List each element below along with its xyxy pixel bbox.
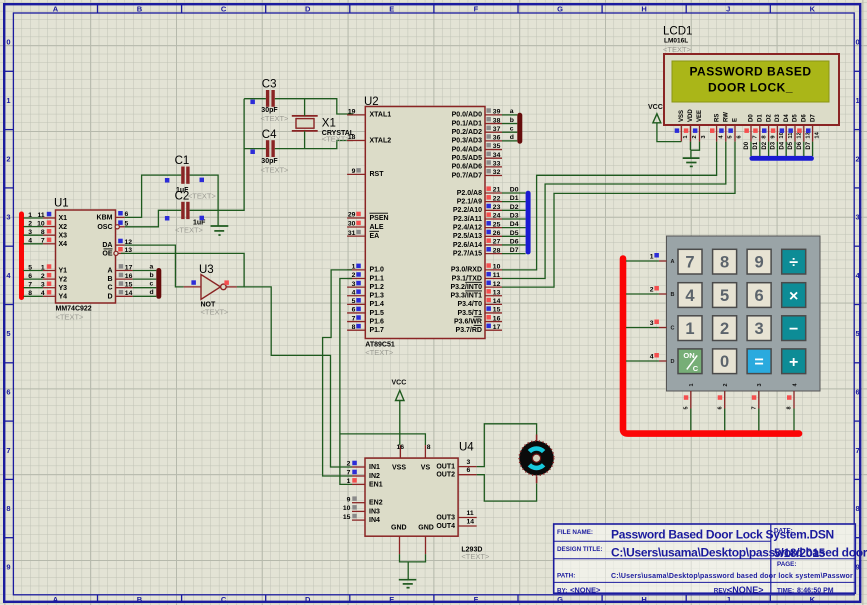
svg-text:D7: D7 <box>806 141 812 149</box>
svg-text:C3: C3 <box>262 79 277 91</box>
svg-text:4: 4 <box>352 289 356 296</box>
svg-text:Password Based Door Lock Syste: Password Based Door Lock System.DSN <box>611 528 834 542</box>
svg-text:D6: D6 <box>797 141 803 149</box>
svg-text:B: B <box>137 4 143 13</box>
wires keypad row pins A-D to red bus <box>626 261 659 361</box>
svg-text:P2.5/A13: P2.5/A13 <box>453 233 482 240</box>
svg-text:36: 36 <box>493 135 501 142</box>
svg-text:D: D <box>305 595 311 604</box>
microcontroller U2 (AT89C51) <box>347 96 502 357</box>
svg-text:A: A <box>671 259 675 265</box>
svg-text:7: 7 <box>347 470 351 477</box>
svg-text:XTAL1: XTAL1 <box>370 112 392 119</box>
svg-text:14: 14 <box>814 131 820 138</box>
svg-text:D1: D1 <box>758 114 764 122</box>
svg-text:U2: U2 <box>364 96 379 108</box>
keypad row/column terminal bus bar (red) at U1 <box>19 212 24 301</box>
svg-text:VCC: VCC <box>648 104 663 111</box>
svg-text:5: 5 <box>684 406 690 409</box>
svg-text:11: 11 <box>467 510 474 517</box>
svg-text:2: 2 <box>6 154 10 163</box>
ground symbol at LCD <box>683 158 700 166</box>
svg-text:÷: ÷ <box>789 255 798 272</box>
svg-text:Y2: Y2 <box>59 276 68 283</box>
svg-text:9: 9 <box>755 254 764 272</box>
svg-text:PATH:: PATH: <box>557 572 575 579</box>
svg-text:4: 4 <box>650 354 654 361</box>
svg-text:14: 14 <box>467 518 475 525</box>
svg-text:6: 6 <box>717 406 723 409</box>
capacitor C1 1uF <box>175 155 217 201</box>
svg-text:X4: X4 <box>59 241 68 248</box>
svg-text:P3.3/INT1: P3.3/INT1 <box>450 293 482 300</box>
svg-text:DOOR LOCK_: DOOR LOCK_ <box>708 81 793 95</box>
svg-text:<TEXT>: <TEXT> <box>663 45 692 54</box>
svg-text:C: C <box>107 285 112 292</box>
svg-text:VS: VS <box>421 465 431 472</box>
svg-text:2: 2 <box>720 320 729 338</box>
svg-text:A: A <box>53 595 59 604</box>
svg-text:9: 9 <box>347 496 351 503</box>
svg-text:E: E <box>733 118 739 122</box>
svg-text:U4: U4 <box>459 442 474 454</box>
bus bar (dark red) at U1 outputs A-D <box>156 268 161 299</box>
ground symbol at C1 <box>211 226 229 235</box>
wires crystal to C3/C4 rows <box>304 99 306 149</box>
svg-text:P2.0/A8: P2.0/A8 <box>457 190 482 197</box>
svg-text:29: 29 <box>348 212 356 219</box>
svg-text:<NONE>: <NONE> <box>727 585 764 595</box>
svg-text:P2.6/A14: P2.6/A14 <box>453 242 482 249</box>
svg-text:D2: D2 <box>766 114 772 122</box>
svg-text:MM74C922: MM74C922 <box>56 306 92 313</box>
svg-text:3: 3 <box>6 213 10 222</box>
capacitor C2 1uF <box>175 190 207 234</box>
wire U3 output to U4 IN1 <box>237 287 352 467</box>
svg-text:8: 8 <box>856 504 860 513</box>
wire U1 OE to U3 output node <box>121 253 244 287</box>
svg-text:D5: D5 <box>788 141 794 149</box>
svg-text:D5: D5 <box>793 114 799 122</box>
svg-text:9: 9 <box>856 562 860 571</box>
svg-text:8: 8 <box>6 504 10 513</box>
svg-text:b: b <box>150 272 154 279</box>
svg-text:D7: D7 <box>510 247 519 254</box>
svg-text:19: 19 <box>348 109 356 116</box>
svg-text:P1.4: P1.4 <box>370 301 385 308</box>
wire LCD RW to U2 P3.1 <box>502 142 726 279</box>
svg-text:12: 12 <box>797 132 803 138</box>
svg-text:E: E <box>389 4 394 13</box>
power symbol VCC at U4 <box>392 380 407 446</box>
svg-text:9: 9 <box>6 562 10 571</box>
svg-text:2: 2 <box>347 461 351 468</box>
svg-text:14: 14 <box>493 298 501 305</box>
svg-text:5: 5 <box>856 329 860 338</box>
keypad decoder U1 (MM74C922) <box>28 198 153 322</box>
svg-text:8: 8 <box>720 254 729 272</box>
svg-text:P2.1/A9: P2.1/A9 <box>457 199 482 206</box>
svg-text:C: C <box>693 364 699 373</box>
svg-text:a: a <box>510 108 514 115</box>
svg-text:VEE: VEE <box>697 110 703 122</box>
svg-text:D6: D6 <box>802 114 808 122</box>
svg-text:<TEXT>: <TEXT> <box>461 552 490 561</box>
svg-text:OUT4: OUT4 <box>436 523 455 530</box>
svg-text:DA: DA <box>102 242 112 249</box>
svg-text:B: B <box>107 276 112 283</box>
svg-text:D: D <box>107 293 112 300</box>
svg-text:C:\Users\usama\Desktop\passwor: C:\Users\usama\Desktop\password based do… <box>611 573 853 580</box>
svg-text:−: − <box>789 321 798 338</box>
svg-text:P3.1/TXD: P3.1/TXD <box>452 275 482 282</box>
wire U1 DA to U3 input <box>125 245 184 287</box>
svg-text:30: 30 <box>348 221 356 228</box>
svg-text:<TEXT>: <TEXT> <box>261 114 290 123</box>
svg-text:<TEXT>: <TEXT> <box>322 135 351 144</box>
svg-text:7: 7 <box>352 315 356 322</box>
svg-text:RST: RST <box>370 171 385 178</box>
svg-text:VCC: VCC <box>392 380 407 387</box>
svg-text:17: 17 <box>125 264 133 271</box>
svg-text:D0: D0 <box>510 187 519 194</box>
svg-text:IN3: IN3 <box>369 508 380 515</box>
svg-text:D1: D1 <box>510 195 519 202</box>
wire OSC pin5 to C2 and C2 to crystal column <box>125 99 244 227</box>
svg-text:5: 5 <box>352 298 356 305</box>
svg-text:RS: RS <box>714 114 720 122</box>
svg-text:P3.5/T1: P3.5/T1 <box>457 310 482 317</box>
svg-text:D3: D3 <box>775 114 781 122</box>
svg-text:1: 1 <box>6 96 10 105</box>
wire U4 OUT1 to motor top <box>477 424 537 467</box>
svg-text:D4: D4 <box>784 114 790 122</box>
svg-text:P0.4/AD4: P0.4/AD4 <box>452 146 482 153</box>
svg-text:J: J <box>726 595 730 604</box>
inverter U3 (NOT) <box>184 264 237 317</box>
svg-text:4: 4 <box>685 287 695 305</box>
svg-text:FILE NAME:: FILE NAME: <box>557 529 593 536</box>
svg-text:7: 7 <box>752 406 758 409</box>
LCD display LCD1 (LM016L) <box>663 26 839 142</box>
svg-text:2: 2 <box>352 272 356 279</box>
svg-text:P3.4/T0: P3.4/T0 <box>457 301 482 308</box>
wires from red bar to U1 X1-X4 and Y1-Y4 pins <box>23 218 43 296</box>
svg-text:D3: D3 <box>771 141 777 149</box>
svg-text:7: 7 <box>856 446 860 455</box>
svg-text:RW: RW <box>724 112 730 122</box>
svg-text:2: 2 <box>856 154 860 163</box>
wires keypad column pins to red bus <box>691 409 794 431</box>
svg-text:LCD1: LCD1 <box>663 26 692 38</box>
svg-text:37: 37 <box>493 126 501 133</box>
svg-text:15: 15 <box>125 282 133 289</box>
svg-text:7: 7 <box>6 446 10 455</box>
svg-text:Y3: Y3 <box>59 285 68 292</box>
wire LCD E to U2 P3.2 <box>502 142 735 288</box>
svg-text:P2.4/A12: P2.4/A12 <box>453 224 482 231</box>
svg-text:GND: GND <box>391 524 407 531</box>
svg-text:H: H <box>641 4 646 13</box>
svg-text:D5: D5 <box>510 230 519 237</box>
calculator keypad <box>650 236 820 410</box>
svg-text:ON: ON <box>683 351 694 360</box>
svg-text:30pF: 30pF <box>261 107 278 114</box>
svg-text:c: c <box>510 125 514 132</box>
svg-text:8:46:50 PM: 8:46:50 PM <box>797 587 834 594</box>
svg-text:BY:: BY: <box>557 587 567 594</box>
svg-text:X1: X1 <box>59 215 68 222</box>
svg-text:P0.5/AD5: P0.5/AD5 <box>452 155 482 162</box>
svg-text:EN2: EN2 <box>369 500 383 507</box>
svg-text:12: 12 <box>493 281 501 288</box>
svg-text:5: 5 <box>6 329 10 338</box>
svg-text:P0.7/AD7: P0.7/AD7 <box>452 172 482 179</box>
svg-text:a: a <box>150 263 154 270</box>
svg-text:X2: X2 <box>59 224 68 231</box>
svg-text:P1.7: P1.7 <box>370 327 385 334</box>
svg-text:1: 1 <box>685 320 694 338</box>
keypad terminal bus (thick red) <box>623 259 799 434</box>
svg-text:<TEXT>: <TEXT> <box>201 308 230 317</box>
svg-text:P1.1: P1.1 <box>370 275 385 282</box>
svg-text:F: F <box>474 595 479 604</box>
svg-text:1: 1 <box>347 478 351 485</box>
wire C4 row to XTAL2 <box>244 141 353 155</box>
svg-text:6: 6 <box>6 388 10 397</box>
svg-text:14: 14 <box>125 290 133 297</box>
svg-text:KBM: KBM <box>97 214 113 221</box>
svg-text:OSC: OSC <box>97 224 112 231</box>
svg-text:2: 2 <box>723 383 729 386</box>
svg-text:D0: D0 <box>749 114 755 122</box>
svg-text:C1: C1 <box>175 155 190 167</box>
svg-text:PSEN: PSEN <box>370 215 389 222</box>
svg-text:LM016L: LM016L <box>664 38 688 45</box>
svg-text:X1: X1 <box>322 117 336 129</box>
svg-text:C4: C4 <box>262 129 277 141</box>
svg-text:8: 8 <box>787 406 793 409</box>
svg-text:P1.3: P1.3 <box>370 293 385 300</box>
svg-text:F: F <box>474 4 479 13</box>
svg-text:21: 21 <box>493 187 501 194</box>
svg-text:A: A <box>53 4 59 13</box>
svg-text:32: 32 <box>493 169 501 176</box>
ground symbol at U4 <box>399 554 426 588</box>
svg-text:22: 22 <box>493 195 501 202</box>
svg-text:P3.6/WR: P3.6/WR <box>454 318 482 325</box>
svg-text:P1.6: P1.6 <box>370 318 385 325</box>
svg-text:D2: D2 <box>762 141 768 149</box>
svg-text:A: A <box>107 268 112 275</box>
svg-text:X3: X3 <box>59 232 68 239</box>
svg-text:26: 26 <box>493 230 501 237</box>
svg-text:7: 7 <box>685 254 694 272</box>
svg-text:=: = <box>754 354 763 371</box>
bus bar (dark red) at U2 P0.0-P0.3, nets a-d <box>502 108 522 144</box>
svg-text:5: 5 <box>720 287 729 305</box>
svg-text:30pF: 30pF <box>261 158 278 165</box>
capacitor C3 30pF <box>261 79 290 124</box>
svg-text:IN1: IN1 <box>369 464 380 471</box>
svg-text:3: 3 <box>757 383 763 386</box>
svg-text:35: 35 <box>493 143 501 150</box>
svg-text:18: 18 <box>348 134 356 141</box>
svg-text:C2: C2 <box>175 190 190 202</box>
svg-text:Y1: Y1 <box>59 268 68 275</box>
power symbol VCC at LCD <box>648 104 681 142</box>
svg-text:P0.1/AD1: P0.1/AD1 <box>452 120 482 127</box>
svg-text:G: G <box>557 4 563 13</box>
svg-text:C:\Users\usama\Desktop\passwor: C:\Users\usama\Desktop\password based do… <box>611 546 867 560</box>
svg-text:8: 8 <box>427 444 431 451</box>
bus bar (blue) at U2 P2, nets D0-D7 <box>502 187 531 255</box>
svg-text:9: 9 <box>352 168 356 175</box>
svg-text:OUT1: OUT1 <box>436 464 455 471</box>
svg-text:23: 23 <box>493 204 501 211</box>
svg-text:EN1: EN1 <box>369 481 383 488</box>
svg-text:13: 13 <box>493 289 501 296</box>
svg-text:+: + <box>789 354 798 371</box>
svg-text:P2.2/A10: P2.2/A10 <box>453 207 482 214</box>
svg-text:0: 0 <box>856 38 860 47</box>
svg-text:11: 11 <box>493 272 500 279</box>
svg-text:B: B <box>671 292 675 298</box>
wire C3 row to XTAL1 <box>244 99 353 114</box>
svg-text:38: 38 <box>493 117 501 124</box>
svg-text:15: 15 <box>343 514 351 521</box>
svg-text:P0.6/AD6: P0.6/AD6 <box>452 164 482 171</box>
svg-text:P0.3/AD3: P0.3/AD3 <box>452 138 482 145</box>
svg-text:P3.7/RD: P3.7/RD <box>456 327 482 334</box>
DC motor <box>519 435 554 484</box>
svg-text:H: H <box>641 595 646 604</box>
svg-text:16: 16 <box>493 315 501 322</box>
svg-text:OUT3: OUT3 <box>436 515 455 522</box>
svg-text:P1.2: P1.2 <box>370 284 385 291</box>
svg-text:D1: D1 <box>753 141 759 149</box>
svg-text:P3.0/RXD: P3.0/RXD <box>451 267 482 274</box>
svg-text:0: 0 <box>720 353 729 371</box>
svg-text:P1.0: P1.0 <box>370 267 385 274</box>
crystal X1 <box>292 116 355 144</box>
svg-text:P2.3/A11: P2.3/A11 <box>453 216 482 223</box>
svg-text:GND: GND <box>418 524 434 531</box>
svg-text:2: 2 <box>692 135 698 138</box>
svg-text:28: 28 <box>493 247 501 254</box>
svg-text:×: × <box>789 288 798 305</box>
svg-text:2: 2 <box>650 287 654 294</box>
svg-text:P0.0/AD0: P0.0/AD0 <box>452 112 482 119</box>
svg-text:7: 7 <box>753 135 759 138</box>
svg-text:VSS: VSS <box>392 465 406 472</box>
svg-text:P1.5: P1.5 <box>370 310 385 317</box>
svg-text:D7: D7 <box>810 114 816 122</box>
svg-text:OE: OE <box>102 250 112 257</box>
svg-text:K: K <box>810 595 816 604</box>
svg-text:C: C <box>221 595 227 604</box>
svg-text:U3: U3 <box>199 264 214 276</box>
svg-text:0: 0 <box>6 38 10 47</box>
motor driver U4 (L293D) <box>343 442 490 562</box>
svg-text:ALE: ALE <box>370 224 384 231</box>
wire U4 OUT2 to motor bottom <box>477 475 537 501</box>
svg-text:8: 8 <box>352 324 356 331</box>
svg-text:C: C <box>671 326 675 332</box>
svg-text:15: 15 <box>493 307 501 314</box>
capacitor C4 30pF <box>261 129 290 174</box>
svg-text:XTAL2: XTAL2 <box>370 137 392 144</box>
svg-text:IN2: IN2 <box>369 473 380 480</box>
svg-text:10: 10 <box>343 505 351 512</box>
svg-text:<TEXT>: <TEXT> <box>261 165 290 174</box>
svg-text:3: 3 <box>352 281 356 288</box>
bus bar (blue) under LCD data pins, nets D0-D7 <box>744 141 814 161</box>
svg-text:33: 33 <box>493 161 501 168</box>
wire LCD RS to U2 P3.0 <box>502 142 717 270</box>
wires U1 A-D outputs to bus bar, nets a,b,c,d <box>133 271 157 297</box>
svg-text:PASSWORD BASED: PASSWORD BASED <box>689 65 811 79</box>
svg-text:TIME:: TIME: <box>777 587 794 594</box>
svg-text:3: 3 <box>467 459 471 466</box>
svg-text:1: 1 <box>689 383 695 386</box>
svg-text:6: 6 <box>467 467 471 474</box>
svg-text:D3: D3 <box>510 213 519 220</box>
svg-text:16: 16 <box>125 273 133 280</box>
svg-text:EA: EA <box>370 233 380 240</box>
svg-text:d: d <box>510 134 514 141</box>
svg-text:10: 10 <box>493 264 501 271</box>
svg-text:<NONE>: <NONE> <box>570 585 601 594</box>
wire U2 P1.1 to U4 EN1 and VS branch <box>340 279 426 485</box>
svg-text:1: 1 <box>650 254 654 261</box>
svg-text:3: 3 <box>755 320 764 338</box>
svg-text:39: 39 <box>493 109 501 116</box>
svg-text:B: B <box>137 595 143 604</box>
title block <box>554 524 867 595</box>
svg-text:6: 6 <box>352 307 356 314</box>
svg-text:1: 1 <box>352 264 356 271</box>
svg-text:D4: D4 <box>779 141 785 149</box>
svg-text:<TEXT>: <TEXT> <box>188 192 217 201</box>
svg-text:D: D <box>305 4 311 13</box>
svg-text:<TEXT>: <TEXT> <box>56 313 85 322</box>
svg-text:OUT2: OUT2 <box>436 472 455 479</box>
svg-text:17: 17 <box>493 324 501 331</box>
svg-text:VSS: VSS <box>679 110 685 122</box>
svg-text:34: 34 <box>493 152 501 159</box>
svg-text:31: 31 <box>348 230 356 237</box>
svg-text:D2: D2 <box>510 204 519 211</box>
svg-text:E: E <box>389 595 394 604</box>
svg-text:3: 3 <box>856 213 860 222</box>
svg-text:PAGE:: PAGE: <box>777 561 796 568</box>
svg-text:3: 3 <box>650 320 654 327</box>
svg-text:C: C <box>221 4 227 13</box>
svg-text:c: c <box>150 281 154 288</box>
svg-text:K: K <box>810 4 816 13</box>
wires LCD VDD/VEE to ground <box>690 142 699 159</box>
svg-text:<TEXT>: <TEXT> <box>365 348 394 357</box>
svg-text:d: d <box>150 289 154 296</box>
svg-text:D6: D6 <box>510 239 519 246</box>
svg-text:b: b <box>510 117 514 124</box>
svg-text:1: 1 <box>856 96 860 105</box>
svg-text:25: 25 <box>493 221 501 228</box>
svg-text:6: 6 <box>755 287 764 305</box>
svg-text:D0: D0 <box>744 141 750 149</box>
svg-text:24: 24 <box>493 213 501 220</box>
